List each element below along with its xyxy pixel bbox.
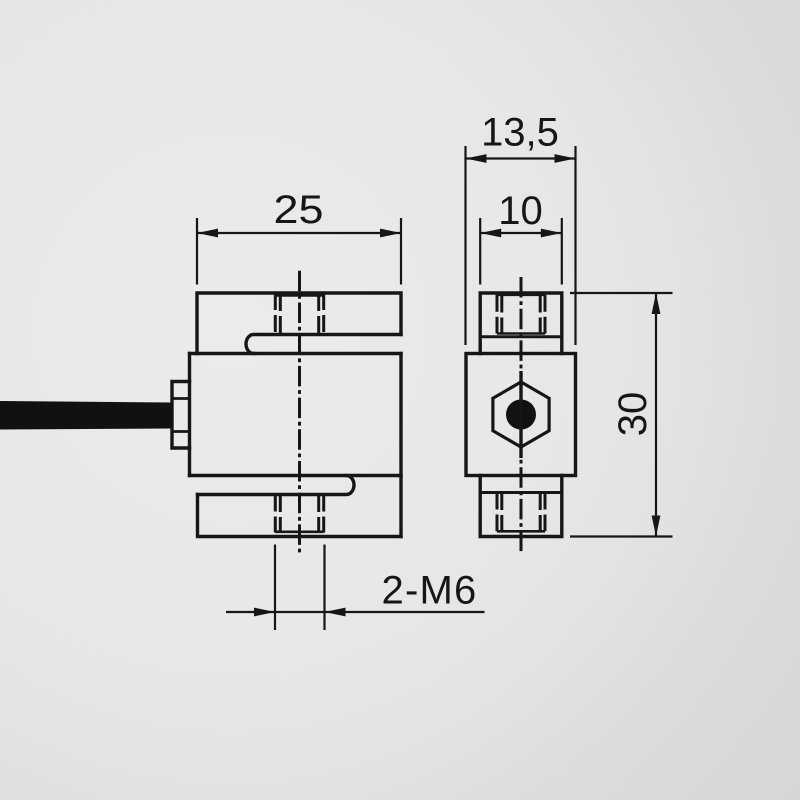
svg-text:13,5: 13,5 xyxy=(481,111,559,155)
svg-text:25: 25 xyxy=(274,188,324,232)
svg-text:30: 30 xyxy=(611,392,655,437)
svg-text:2-M6: 2-M6 xyxy=(382,569,478,613)
svg-text:10: 10 xyxy=(498,189,543,233)
